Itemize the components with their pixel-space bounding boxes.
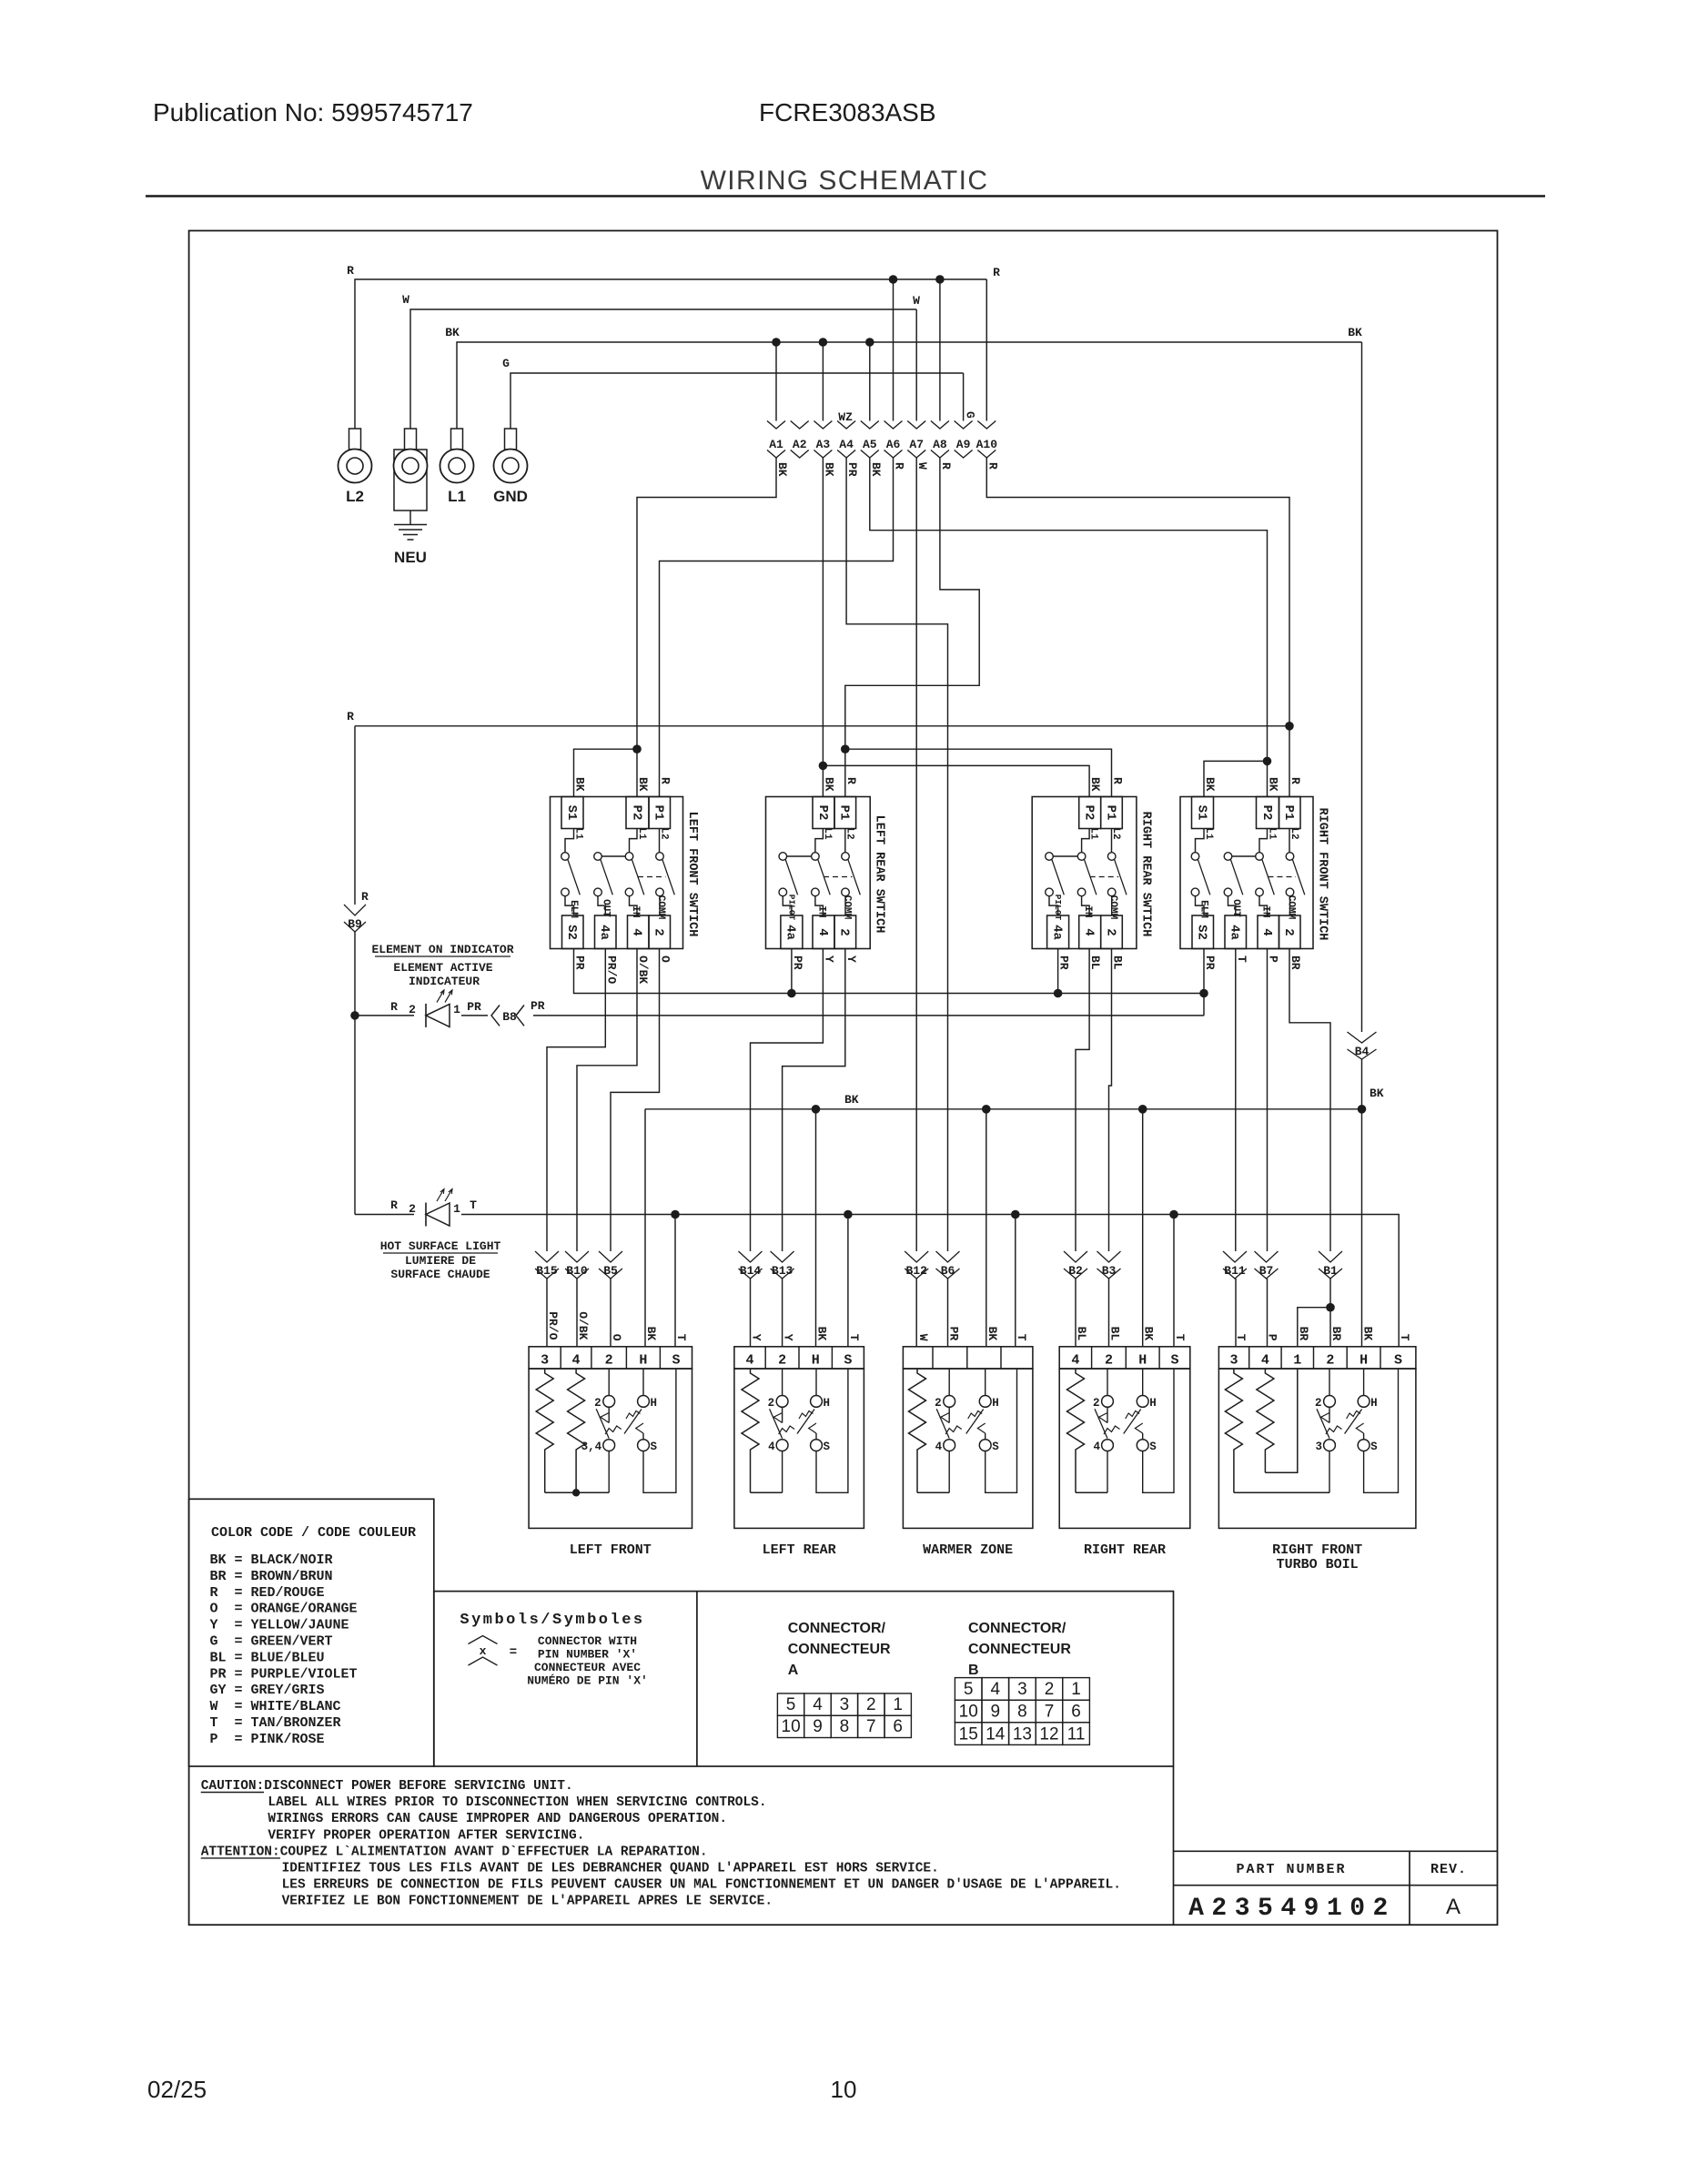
svg-text:4: 4 [813,1695,823,1714]
svg-text:WIRING SCHEMATIC: WIRING SCHEMATIC [701,166,989,196]
svg-text:BR: BR [1329,1327,1343,1341]
svg-text:SURFACE CHAUDE: SURFACE CHAUDE [390,1268,490,1281]
svg-text:COMM: COMM [1107,895,1118,920]
svg-text:IN: IN [630,905,641,917]
svg-text:3: 3 [541,1353,549,1369]
svg-text:R: R [986,462,999,470]
svg-text:OUT: OUT [1230,899,1241,917]
svg-text:6: 6 [893,1717,903,1736]
svg-text:OUT: OUT [601,899,612,917]
svg-text:A8: A8 [933,438,947,451]
svg-text:IDENTIFIEZ TOUS LES FILS AVANT: IDENTIFIEZ TOUS LES FILS AVANT DE LES DE… [282,1862,939,1876]
svg-text:BL: BL [1088,955,1102,970]
svg-text:10: 10 [831,2076,857,2103]
svg-text:BK: BK [573,777,587,792]
svg-text:FCRE3083ASB: FCRE3083ASB [759,98,936,126]
svg-text:A: A [788,1663,799,1678]
svg-text:L1: L1 [1267,827,1278,840]
svg-text:B13: B13 [772,1264,793,1278]
svg-text:A10: A10 [976,438,998,451]
svg-text:H: H [812,1353,820,1369]
svg-text:VERIFY PROPER OPERATION AFTER: VERIFY PROPER OPERATION AFTER SERVICING. [268,1828,584,1843]
svg-text:S: S [1394,1353,1402,1369]
svg-text:W = WHITE/BLANC: W = WHITE/BLANC [210,1699,341,1714]
svg-text:B15: B15 [536,1264,558,1278]
svg-text:B10: B10 [566,1264,588,1278]
svg-text:BK: BK [445,326,460,339]
svg-text:H: H [651,1397,658,1410]
svg-text:P1: P1 [652,805,666,821]
svg-text:4: 4 [935,1441,943,1453]
svg-text:Y = YELLOW/JAUNE: Y = YELLOW/JAUNE [210,1618,349,1633]
svg-text:2: 2 [1326,1353,1334,1369]
svg-text:INDICATEUR: INDICATEUR [409,975,480,988]
svg-text:L2: L2 [346,488,364,505]
svg-text:O = ORANGE/ORANGE: O = ORANGE/ORANGE [210,1602,358,1617]
svg-text:PILOT: PILOT [786,895,796,921]
svg-text:REV.: REV. [1430,1862,1467,1877]
svg-text:P1: P1 [1103,805,1117,821]
svg-text:CONNECTEUR AVEC: CONNECTEUR AVEC [534,1661,641,1674]
svg-text:B: B [968,1663,979,1678]
svg-text:S2: S2 [1195,925,1209,940]
svg-text:7: 7 [866,1717,876,1736]
svg-text:G = GREEN/VERT: G = GREEN/VERT [210,1634,333,1650]
svg-text:BR = BROWN/BRUN: BR = BROWN/BRUN [210,1569,333,1584]
svg-text:S: S [1370,1441,1378,1453]
svg-text:R: R [659,777,672,784]
svg-text:WZ: WZ [838,410,853,424]
svg-text:BK: BK [1361,1327,1375,1341]
svg-text:4: 4 [991,1680,1001,1699]
svg-text:ATTENTION:COUPEZ L`ALIMENTATIO: ATTENTION:COUPEZ L`ALIMENTATION AVANT D`… [201,1845,708,1859]
svg-text:COMM: COMM [1286,895,1297,920]
svg-text:5: 5 [964,1680,974,1699]
svg-text:R: R [390,1198,398,1212]
svg-text:12: 12 [1039,1724,1058,1744]
svg-text:NUMÉRO DE PIN 'X': NUMÉRO DE PIN 'X' [527,1674,648,1688]
svg-text:R: R [893,462,906,470]
svg-text:2: 2 [1315,1397,1322,1410]
svg-text:02/25: 02/25 [147,2076,207,2103]
svg-text:BK: BK [986,1327,999,1341]
svg-text:GND: GND [493,488,528,505]
svg-text:ELEMENT ON INDICATOR: ELEMENT ON INDICATOR [371,943,513,956]
svg-text:4a: 4a [1228,925,1242,940]
svg-text:O/BK: O/BK [576,1311,590,1340]
svg-text:4: 4 [746,1353,754,1369]
svg-text:11: 11 [1067,1724,1086,1744]
svg-text:P: P [1266,1334,1279,1341]
svg-text:2: 2 [409,1003,416,1016]
svg-text:BL: BL [1075,1327,1088,1341]
svg-text:1: 1 [453,1003,460,1016]
svg-text:L2: L2 [844,827,855,839]
svg-text:H: H [1138,1353,1147,1369]
svg-text:2: 2 [768,1397,775,1410]
svg-text:P1: P1 [837,805,852,821]
svg-text:P2: P2 [1259,805,1274,821]
svg-text:B6: B6 [941,1264,955,1278]
svg-text:ELM: ELM [1198,900,1209,918]
svg-text:S: S [992,1441,999,1453]
svg-text:H: H [824,1397,831,1410]
svg-text:BK: BK [822,462,835,477]
svg-text:PR = PURPLE/VIOLET: PR = PURPLE/VIOLET [210,1666,358,1682]
svg-text:L2: L2 [659,827,670,839]
svg-text:LES ERREURS DE CONNECTION DE F: LES ERREURS DE CONNECTION DE FILS PEUVEN… [282,1878,1121,1893]
svg-text:4: 4 [815,928,830,935]
svg-text:S: S [1170,1353,1178,1369]
svg-text:G: G [964,411,977,419]
svg-text:BR: BR [1297,1327,1310,1341]
svg-text:WARMER ZONE: WARMER ZONE [923,1542,1013,1558]
svg-text:COLOR CODE / CODE COULEUR: COLOR CODE / CODE COULEUR [211,1525,416,1541]
svg-text:B7: B7 [1259,1264,1274,1278]
svg-text:4: 4 [1261,1353,1269,1369]
svg-text:O: O [610,1334,623,1341]
svg-text:CONNECTOR WITH: CONNECTOR WITH [538,1634,637,1648]
svg-text:PR/O: PR/O [604,955,618,984]
svg-text:2: 2 [594,1397,601,1410]
svg-text:10: 10 [782,1717,801,1736]
svg-text:4a: 4a [1049,925,1064,940]
svg-text:4a: 4a [597,925,612,940]
svg-text:G: G [502,357,510,370]
svg-text:GY = GREY/GRIS: GY = GREY/GRIS [210,1683,325,1698]
svg-text:Y: Y [782,1334,795,1341]
svg-text:BK: BK [869,462,883,477]
svg-text:W: W [402,293,409,307]
svg-text:P2: P2 [629,805,643,821]
svg-text:PR: PR [467,1000,481,1014]
svg-text:2: 2 [605,1353,613,1369]
svg-text:x: x [480,1644,487,1658]
svg-text:T: T [470,1198,477,1212]
svg-text:T = TAN/BRONZER: T = TAN/BRONZER [210,1715,341,1731]
svg-text:PR: PR [791,955,804,970]
svg-text:A9: A9 [956,438,971,451]
svg-text:8: 8 [1017,1703,1027,1722]
svg-text:BK: BK [775,462,789,477]
svg-text:RIGHT FRONT SWTICH: RIGHT FRONT SWTICH [1316,808,1329,941]
svg-text:LABEL ALL WIRES PRIOR TO DISCO: LABEL ALL WIRES PRIOR TO DISCONNECTION W… [268,1795,766,1810]
svg-text:P = PINK/ROSE: P = PINK/ROSE [210,1732,325,1747]
svg-text:2: 2 [652,928,666,935]
svg-text:BR: BR [1289,955,1302,970]
svg-text:H: H [1370,1397,1378,1410]
svg-text:PIN NUMBER 'X': PIN NUMBER 'X' [538,1648,637,1662]
svg-text:A6: A6 [886,438,901,451]
svg-text:BK: BK [636,777,650,792]
svg-text:ELEMENT ACTIVE: ELEMENT ACTIVE [393,961,492,975]
svg-text:BK: BK [1142,1327,1156,1341]
svg-text:L1: L1 [448,488,466,505]
svg-text:2: 2 [778,1353,786,1369]
svg-text:IN: IN [1260,905,1271,917]
svg-text:BK: BK [822,777,835,792]
svg-text:3: 3 [1230,1353,1238,1369]
svg-text:PR: PR [947,1327,961,1341]
svg-text:S1: S1 [564,805,579,821]
svg-text:4a: 4a [783,925,798,940]
svg-text:2: 2 [409,1202,416,1216]
svg-text:Y: Y [844,955,858,963]
svg-text:R: R [390,1000,398,1014]
svg-text:A4: A4 [839,438,854,451]
svg-text:RIGHT REAR SWTICH: RIGHT REAR SWTICH [1138,812,1152,937]
svg-text:CONNECTEUR: CONNECTEUR [788,1642,891,1657]
svg-text:BL = BLUE/BLEU: BL = BLUE/BLEU [210,1650,325,1665]
svg-text:CAUTION:DISCONNECT POWER BEFOR: CAUTION:DISCONNECT POWER BEFORE SERVICIN… [201,1779,573,1794]
svg-text:L1: L1 [573,827,584,840]
svg-text:H: H [1149,1397,1157,1410]
svg-text:Symbols/Symboles: Symbols/Symboles [460,1612,644,1629]
svg-text:Y: Y [822,955,835,963]
svg-text:R: R [1289,777,1302,784]
svg-text:15: 15 [959,1724,978,1744]
svg-text:10: 10 [959,1703,978,1722]
svg-text:IN: IN [815,905,826,917]
svg-text:R: R [347,264,354,278]
svg-text:PR/O: PR/O [546,1311,560,1340]
svg-text:B14: B14 [740,1264,762,1278]
svg-text:4: 4 [630,928,644,935]
svg-text:BL: BL [1108,1327,1122,1341]
svg-text:CONNECTOR/: CONNECTOR/ [788,1621,886,1636]
svg-text:2: 2 [837,928,852,935]
svg-text:=: = [510,1645,517,1660]
svg-text:2: 2 [1045,1680,1055,1699]
svg-text:S: S [1149,1441,1157,1453]
svg-text:L2: L2 [1110,827,1121,839]
svg-text:R: R [347,710,354,723]
svg-text:3: 3 [840,1695,850,1714]
svg-text:H: H [639,1353,647,1369]
svg-text:PILOT: PILOT [1053,895,1063,921]
svg-text:PR: PR [531,999,545,1013]
svg-text:T: T [1173,1334,1187,1341]
svg-text:W: W [916,1334,930,1341]
svg-text:3: 3 [1315,1441,1322,1453]
svg-text:PR: PR [1203,955,1217,970]
svg-text:CONNECTOR/: CONNECTOR/ [968,1621,1066,1636]
svg-text:L1: L1 [1203,827,1214,840]
svg-text:1: 1 [893,1695,903,1714]
svg-text:CONNECTEUR: CONNECTEUR [968,1642,1071,1657]
svg-text:COMM: COMM [841,895,852,920]
svg-text:A7: A7 [909,438,924,451]
svg-text:T: T [1398,1334,1411,1341]
svg-text:3,4: 3,4 [581,1441,602,1453]
svg-text:H: H [1359,1353,1368,1369]
svg-text:T: T [1234,1334,1248,1341]
svg-text:H: H [992,1397,999,1410]
svg-text:R: R [1111,777,1125,784]
svg-text:S2: S2 [564,925,579,940]
svg-text:S1: S1 [1194,805,1208,821]
svg-text:S: S [824,1441,831,1453]
svg-text:P2: P2 [815,805,830,821]
svg-text:S: S [651,1441,658,1453]
svg-text:9: 9 [813,1717,823,1736]
svg-text:P1: P1 [1281,805,1296,821]
svg-text:BL: BL [1111,955,1125,970]
svg-text:W: W [913,294,920,308]
svg-text:R: R [361,890,369,904]
svg-text:Publication No: 5995745717: Publication No: 5995745717 [153,98,473,126]
svg-text:PR: PR [1057,955,1071,970]
svg-text:A23549102: A23549102 [1188,1895,1396,1923]
svg-text:1: 1 [1293,1353,1301,1369]
svg-text:ELM: ELM [568,900,579,918]
svg-text:T: T [1235,955,1248,963]
svg-text:2: 2 [866,1695,876,1714]
svg-text:PR: PR [573,955,587,970]
svg-text:BK: BK [1370,1087,1384,1100]
svg-text:BK: BK [1088,777,1102,792]
svg-text:B8: B8 [502,1010,517,1024]
svg-text:3: 3 [1017,1680,1027,1699]
svg-text:B12: B12 [905,1264,927,1278]
svg-text:2: 2 [1281,928,1296,935]
svg-text:B3: B3 [1102,1264,1117,1278]
svg-text:A2: A2 [793,438,807,451]
svg-text:BK: BK [844,1093,859,1107]
svg-text:BK: BK [1348,326,1362,339]
svg-text:W: W [915,462,929,470]
svg-text:O: O [659,955,672,963]
svg-text:A3: A3 [816,438,831,451]
svg-text:L1: L1 [636,827,647,840]
svg-text:6: 6 [1071,1703,1081,1722]
svg-text:T: T [674,1334,688,1341]
svg-text:T: T [1015,1334,1028,1341]
svg-text:RIGHT REAR: RIGHT REAR [1084,1542,1166,1558]
svg-text:LEFT FRONT: LEFT FRONT [570,1542,652,1558]
svg-text:P: P [1267,955,1280,963]
svg-text:PART NUMBER: PART NUMBER [1236,1862,1346,1877]
svg-text:13: 13 [1013,1724,1032,1744]
svg-text:P2: P2 [1082,805,1097,821]
svg-text:A: A [1446,1895,1461,1919]
svg-text:2: 2 [935,1397,942,1410]
svg-text:B5: B5 [603,1264,618,1278]
svg-text:BK: BK [1203,777,1217,792]
svg-text:O/BK: O/BK [636,955,650,984]
svg-text:14: 14 [986,1724,1006,1744]
svg-text:4: 4 [1093,1441,1100,1453]
svg-text:4: 4 [572,1353,581,1369]
svg-text:BK: BK [815,1327,829,1341]
svg-text:8: 8 [840,1717,850,1736]
svg-text:5: 5 [786,1695,796,1714]
svg-text:TURBO BOIL: TURBO BOIL [1277,1557,1359,1572]
svg-text:LUMIERE DE: LUMIERE DE [405,1254,476,1268]
svg-text:4: 4 [768,1441,775,1453]
svg-text:L1: L1 [1088,827,1099,840]
svg-text:4: 4 [1259,928,1274,935]
svg-text:1: 1 [1071,1680,1081,1699]
svg-text:L2: L2 [1289,827,1299,839]
svg-text:B2: B2 [1068,1264,1083,1278]
svg-text:B1: B1 [1323,1264,1338,1278]
svg-text:LEFT REAR SWTICH: LEFT REAR SWTICH [873,815,886,934]
svg-text:HOT SURFACE LIGHT: HOT SURFACE LIGHT [380,1239,501,1253]
svg-text:7: 7 [1045,1703,1055,1722]
svg-text:B11: B11 [1224,1264,1246,1278]
svg-text:T: T [847,1334,861,1341]
svg-text:9: 9 [991,1703,1001,1722]
svg-text:2: 2 [1105,1353,1113,1369]
svg-text:R = RED/ROUGE: R = RED/ROUGE [210,1585,325,1601]
svg-text:4: 4 [1071,1353,1079,1369]
svg-text:4: 4 [1082,928,1097,935]
svg-text:IN: IN [1082,905,1093,917]
svg-text:WIRINGS ERRORS CAN CAUSE IMPRO: WIRINGS ERRORS CAN CAUSE IMPROPER AND DA… [268,1812,727,1826]
svg-text:S: S [672,1353,680,1369]
svg-text:R: R [939,462,953,470]
svg-text:Y: Y [750,1334,763,1341]
svg-text:BK: BK [644,1327,658,1341]
svg-text:R: R [993,266,1000,279]
svg-text:B9: B9 [348,917,362,931]
svg-text:A5: A5 [863,438,877,451]
svg-text:S: S [844,1353,852,1369]
svg-text:R: R [844,777,858,784]
svg-text:COMM: COMM [655,895,666,920]
svg-text:LEFT FRONT SWTICH: LEFT FRONT SWTICH [685,812,699,937]
svg-text:VERIFIEZ LE BON FONCTIONNEMENT: VERIFIEZ LE BON FONCTIONNEMENT DE L'APPA… [282,1895,773,1909]
svg-text:NEU: NEU [394,549,427,566]
svg-text:PR: PR [845,462,859,477]
svg-text:A1: A1 [769,438,783,451]
svg-text:LEFT REAR: LEFT REAR [763,1542,836,1558]
svg-text:BK = BLACK/NOIR: BK = BLACK/NOIR [210,1552,333,1568]
svg-text:2: 2 [1093,1397,1100,1410]
svg-text:2: 2 [1103,928,1117,935]
svg-text:RIGHT FRONT: RIGHT FRONT [1272,1542,1362,1558]
svg-text:L1: L1 [822,827,833,840]
svg-text:BK: BK [1267,777,1280,792]
svg-text:1: 1 [453,1202,460,1216]
